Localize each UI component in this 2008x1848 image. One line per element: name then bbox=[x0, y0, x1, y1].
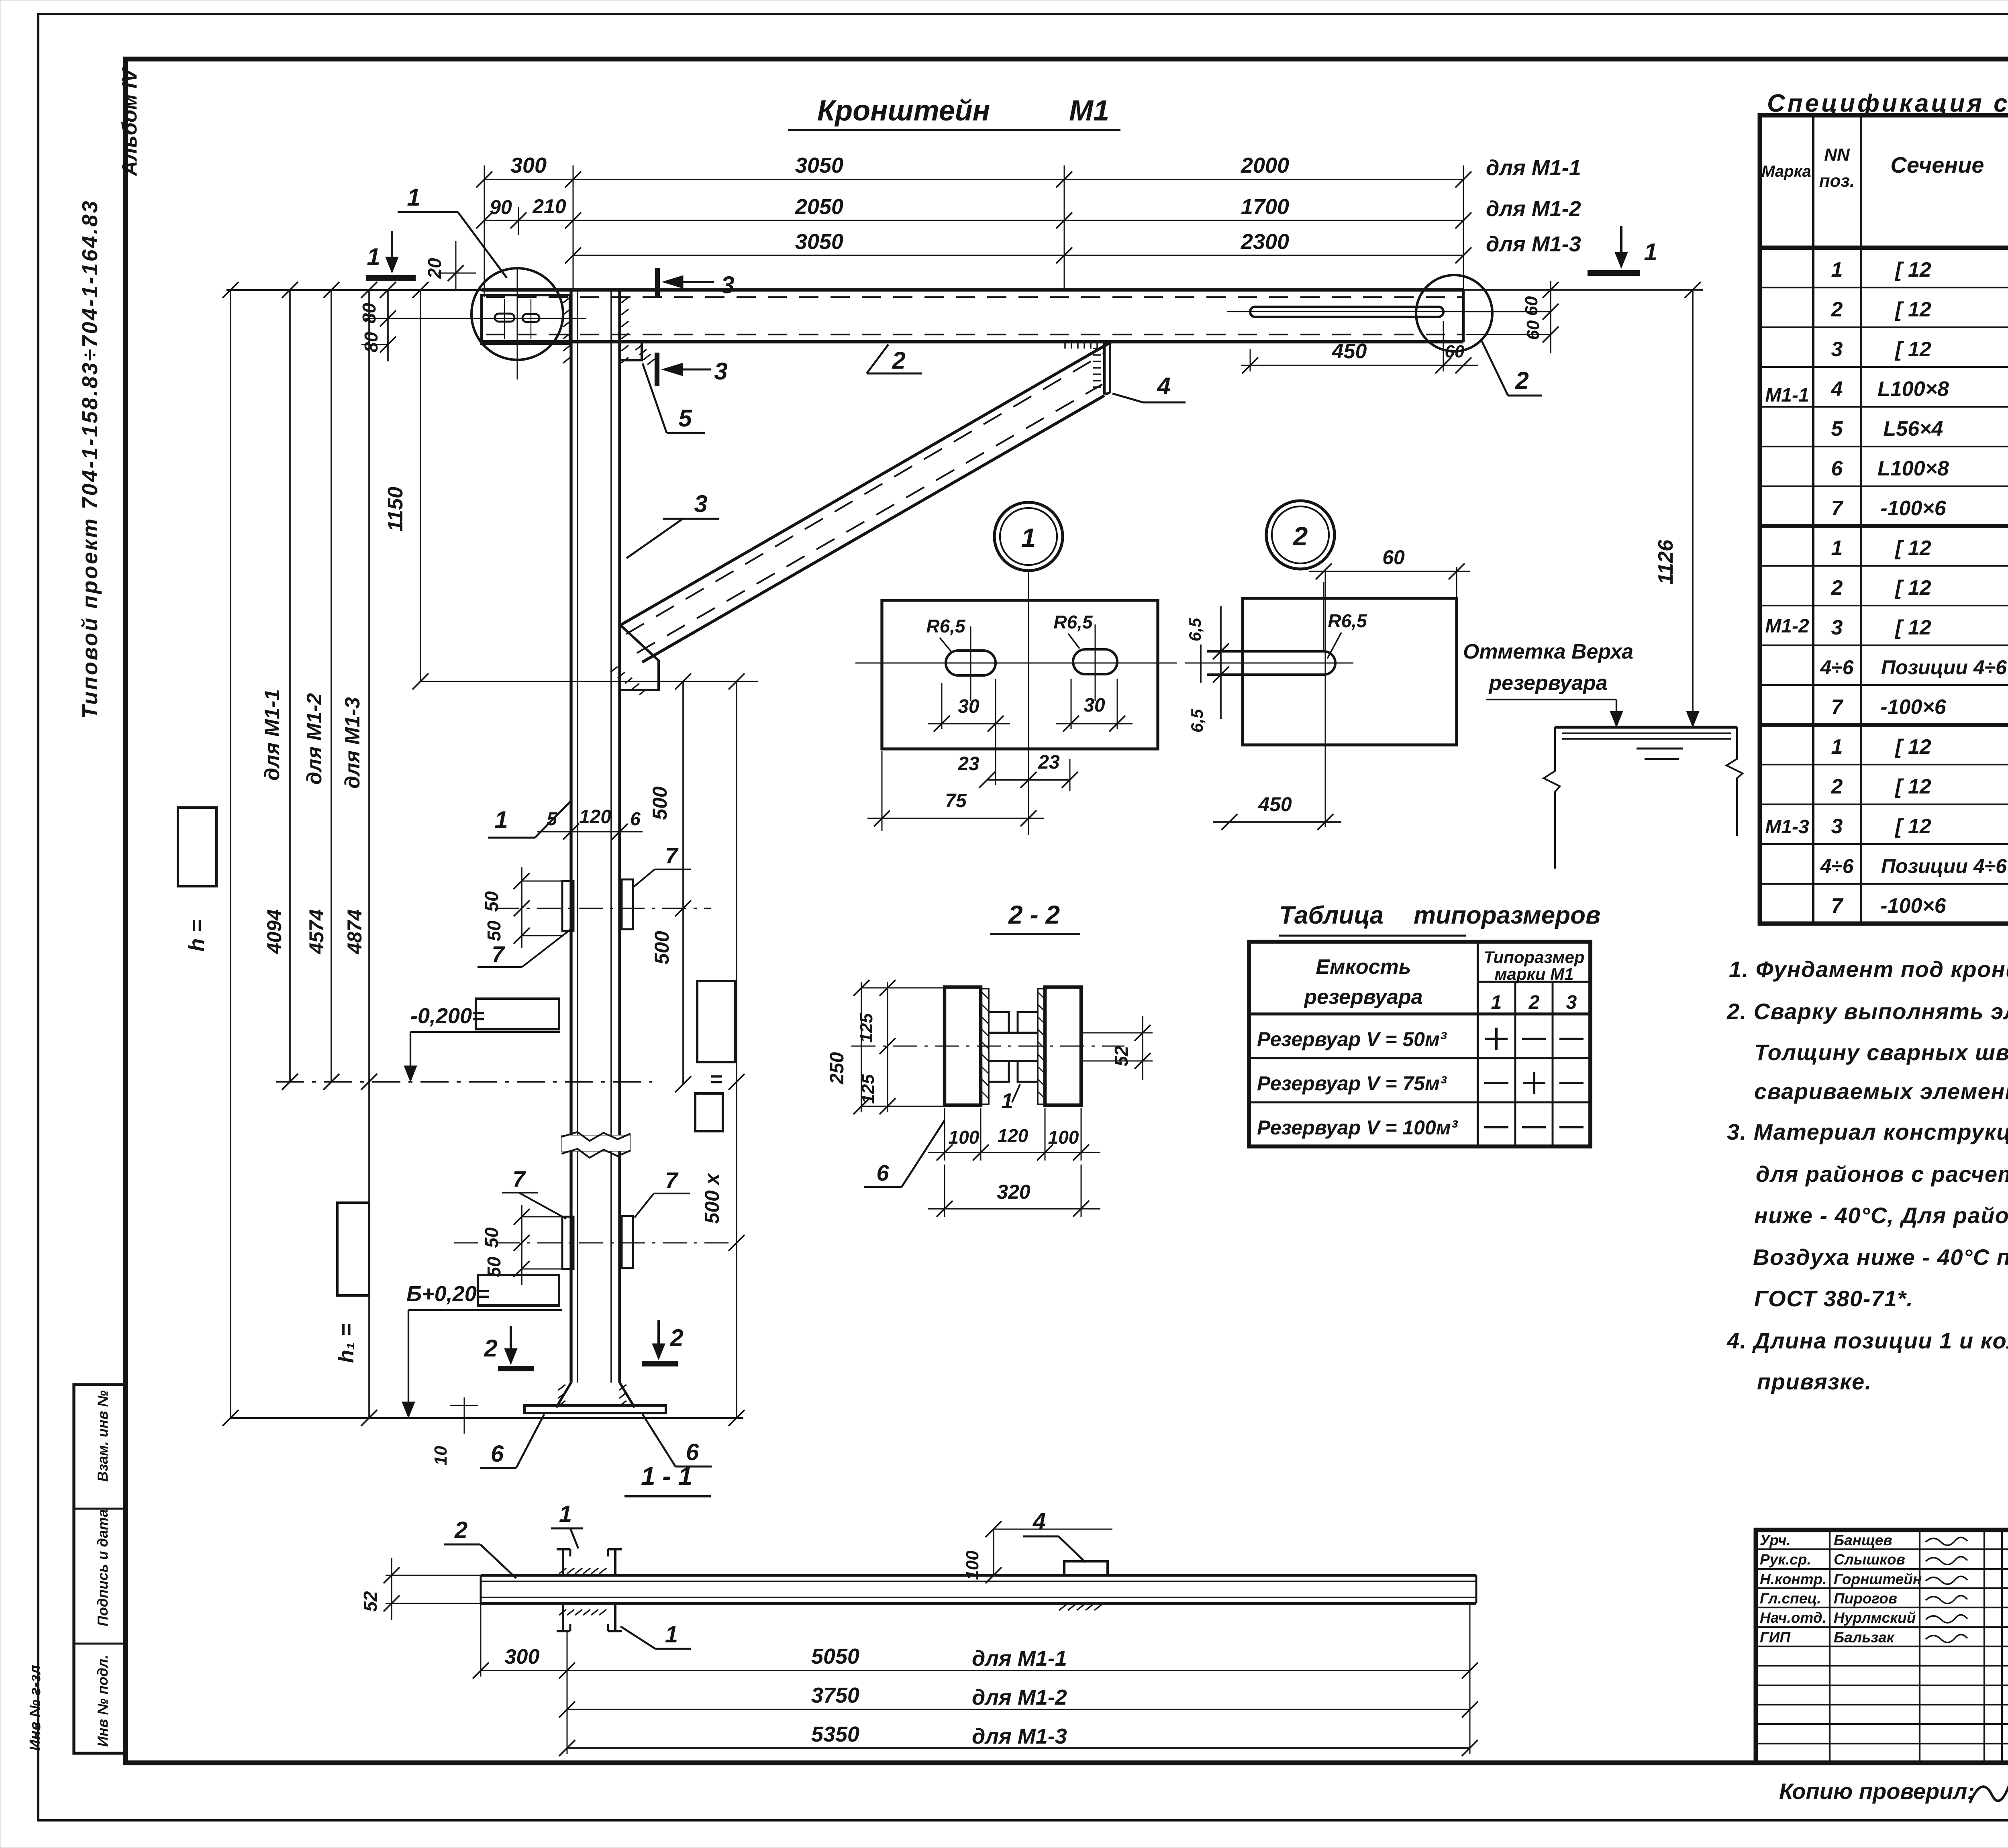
svg-text:4: 4 bbox=[1157, 373, 1170, 400]
svg-text:1: 1 bbox=[1491, 992, 1502, 1013]
dim 60/60 right bbox=[1550, 281, 1551, 353]
detail 1 callout circle bbox=[994, 502, 1063, 571]
section 1-1 upper channel stub pos.1 bbox=[562, 1549, 564, 1575]
dims 100/120/100 bbox=[944, 1108, 945, 1161]
svg-text:-100×6: -100×6 bbox=[1880, 696, 1946, 719]
svg-text:1: 1 bbox=[494, 806, 508, 833]
weld ticks post right edge bbox=[621, 297, 629, 303]
svg-text:[ 12: [ 12 bbox=[1894, 735, 1931, 759]
brace top stub plate pos.4 bbox=[1103, 340, 1106, 394]
section mark 3 upper (above beam) bbox=[655, 268, 660, 297]
svg-text:[ 12: [ 12 bbox=[1894, 338, 1931, 361]
svg-text:4: 4 bbox=[1831, 377, 1843, 401]
base plate pos.6 bbox=[524, 1405, 666, 1413]
svg-text:1: 1 bbox=[1644, 239, 1657, 265]
svg-text:4. Длина позиции 1 и количес: 4. Длина позиции 1 и количество позиций … bbox=[1726, 1328, 2008, 1353]
svg-text:2. Сварку выполнять электрод: 2. Сварку выполнять электродами типа Э-4… bbox=[1726, 999, 2008, 1024]
svg-text:Кронштейн: Кронштейн bbox=[817, 95, 990, 127]
svg-text:450: 450 bbox=[1258, 793, 1292, 816]
svg-text:-100×6: -100×6 bbox=[1880, 894, 1946, 918]
svg-text:1: 1 bbox=[407, 184, 420, 211]
svg-text:100: 100 bbox=[1048, 1127, 1079, 1148]
plate slot centerlines bbox=[504, 299, 505, 339]
svg-text:3: 3 bbox=[1831, 616, 1843, 639]
svg-text:6: 6 bbox=[630, 808, 641, 829]
svg-text:125: 125 bbox=[857, 1013, 876, 1043]
weld ticks post left edge bbox=[563, 297, 570, 303]
svg-text:марки М1: марки М1 bbox=[1494, 965, 1573, 983]
svg-text:320: 320 bbox=[997, 1181, 1031, 1203]
svg-text:2: 2 bbox=[454, 1517, 467, 1543]
svg-text:для М1-2: для М1-2 bbox=[303, 693, 326, 785]
svg-text:2050: 2050 bbox=[795, 195, 843, 219]
svg-text:50: 50 bbox=[484, 920, 504, 941]
svg-text:Н.контр.: Н.контр. bbox=[1760, 1571, 1826, 1587]
tablica frame bbox=[1249, 942, 1590, 1146]
detail 1 dims 23/23 bbox=[987, 779, 1070, 781]
svg-text:2: 2 bbox=[1528, 992, 1540, 1013]
dim 50/50 lower bbox=[521, 1205, 522, 1285]
dim 1150 bbox=[420, 290, 421, 681]
detail 2 dims 6,5 bbox=[1220, 606, 1222, 719]
beam right end bbox=[1462, 290, 1465, 342]
svg-text:5350: 5350 bbox=[811, 1722, 859, 1746]
top dimension rows bbox=[484, 179, 1463, 180]
svg-text:для М1-2: для М1-2 bbox=[1486, 197, 1581, 221]
svg-text:R6,5: R6,5 bbox=[1053, 612, 1093, 632]
svg-text:NN: NN bbox=[1824, 145, 1850, 165]
svg-text:Инв № подл.: Инв № подл. bbox=[94, 1655, 111, 1747]
svg-text:1 - 1: 1 - 1 bbox=[641, 1462, 692, 1491]
svg-text:1700: 1700 bbox=[1241, 195, 1289, 219]
svg-text:Взам. инв №: Взам. инв № bbox=[94, 1390, 111, 1482]
svg-text:450: 450 bbox=[1332, 340, 1367, 363]
svg-text:h =: h = bbox=[185, 920, 209, 952]
svg-text:1: 1 bbox=[1831, 258, 1843, 281]
detail 2 dim 60 top bbox=[1323, 582, 1324, 651]
dim 10 base bbox=[464, 1397, 465, 1434]
beam pos.2 bottom flange bbox=[482, 340, 1463, 344]
left dim lines for M1 variants bbox=[289, 290, 291, 1082]
svg-text:3: 3 bbox=[1566, 992, 1577, 1013]
svg-text:3: 3 bbox=[694, 490, 707, 517]
svg-text:Типоразмер: Типоразмер bbox=[1484, 948, 1585, 967]
stiffener pos.7 upper left bbox=[562, 881, 573, 931]
left attribute strip bbox=[74, 1385, 125, 1753]
left tall level box bbox=[337, 1203, 369, 1295]
detail 1 slot A bbox=[946, 651, 996, 675]
detail 1 dim 75 bbox=[882, 751, 883, 831]
svg-text:[ 12: [ 12 bbox=[1894, 536, 1931, 560]
svg-text:4574: 4574 bbox=[305, 909, 328, 954]
dim 52 right bbox=[1081, 1032, 1153, 1034]
svg-text:Урч.: Урч. bbox=[1760, 1532, 1791, 1548]
svg-text:1: 1 bbox=[1831, 735, 1843, 759]
plate slot B bbox=[522, 314, 539, 322]
svg-text:3050: 3050 bbox=[795, 230, 843, 254]
svg-text:для М1-3: для М1-3 bbox=[341, 697, 364, 789]
svg-text:для районов с расчетной те: для районов с расчетной температурой нар… bbox=[1756, 1161, 2008, 1187]
svg-text:Сечение: Сечение bbox=[1890, 152, 1984, 177]
svg-text:1. Фундамент под кронштейн: 1. Фундамент под кронштейн М1 разработан… bbox=[1729, 957, 2008, 982]
weld ticks pos4 plate left bbox=[1093, 348, 1101, 349]
svg-text:3. Материал конструкций - ст: 3. Материал конструкций - сталь марки В … bbox=[1727, 1119, 2008, 1144]
section 1-1 beam lines bbox=[481, 1574, 1476, 1577]
svg-text:[ 12: [ 12 bbox=[1894, 258, 1931, 281]
svg-text:6: 6 bbox=[876, 1160, 889, 1185]
dim 80/80 left bbox=[387, 290, 389, 361]
signature scribble bbox=[1926, 1576, 1967, 1584]
svg-text:3: 3 bbox=[1831, 338, 1843, 361]
svg-text:2: 2 bbox=[1292, 521, 1308, 551]
detail 1 dims 30 bbox=[941, 683, 943, 729]
section 2-2 weld seams bbox=[982, 989, 989, 1104]
svg-text:7: 7 bbox=[1831, 696, 1844, 719]
svg-text:L100×8: L100×8 bbox=[1877, 377, 1949, 401]
svg-text:6: 6 bbox=[1831, 457, 1843, 480]
foundation line bbox=[231, 1417, 743, 1419]
svg-text:1126: 1126 bbox=[1654, 539, 1677, 585]
svg-text:Резервуар V = 100м³: Резервуар V = 100м³ bbox=[1257, 1116, 1458, 1139]
brace lower gusset bbox=[620, 624, 659, 690]
foundation axis line -0.200 bbox=[276, 1081, 652, 1083]
wall end plate pos.1 bbox=[482, 295, 570, 344]
svg-text:ниже - 40°С, Для районов с: ниже - 40°С, Для районов с расчетной тем… bbox=[1754, 1203, 2008, 1228]
svg-text:Гл.спец.: Гл.спец. bbox=[1760, 1590, 1821, 1607]
dim 450/60 under slot bbox=[1250, 349, 1251, 371]
svg-text:М1-1: М1-1 bbox=[1765, 385, 1809, 406]
svg-text:h₁ =: h₁ = bbox=[334, 1324, 358, 1363]
svg-text:привязке.: привязке. bbox=[1757, 1369, 1872, 1394]
svg-text:1: 1 bbox=[559, 1501, 572, 1527]
post pos.1 (vertical channel) bbox=[569, 290, 572, 1383]
svg-text:для М1-1: для М1-1 bbox=[261, 689, 284, 781]
dim 1126 bbox=[1692, 290, 1694, 727]
proveril signature bbox=[1970, 1760, 2008, 1803]
svg-text:ГИП: ГИП bbox=[1760, 1629, 1791, 1646]
svg-text:52: 52 bbox=[1111, 1046, 1132, 1067]
level box -0,200 bbox=[476, 999, 559, 1029]
svg-text:Воздуха ниже - 40°С применя: Воздуха ниже - 40°С применять сталь марк… bbox=[1753, 1244, 2008, 1270]
detail 1 slot B bbox=[1073, 649, 1117, 674]
beam pos.2 top flange bbox=[227, 289, 482, 291]
svg-text:[ 12: [ 12 bbox=[1894, 616, 1931, 639]
weld ticks base left bbox=[558, 1385, 565, 1390]
svg-text:2: 2 bbox=[1831, 775, 1843, 798]
plate axis centerline bbox=[517, 268, 518, 379]
svg-text:[ 12: [ 12 bbox=[1894, 815, 1931, 838]
svg-text:Пирогов: Пирогов bbox=[1834, 1590, 1897, 1607]
svg-text:23: 23 bbox=[957, 753, 980, 775]
svg-text:[ 12: [ 12 bbox=[1894, 298, 1931, 321]
svg-text:поз.: поз. bbox=[1819, 171, 1855, 191]
dim 20 bbox=[438, 273, 476, 274]
svg-text:Нач.отд.: Нач.отд. bbox=[1760, 1609, 1826, 1626]
svg-text:6: 6 bbox=[491, 1441, 504, 1467]
weld ticks lower stub weld bbox=[559, 1609, 566, 1615]
svg-text:Слышков: Слышков bbox=[1834, 1551, 1905, 1568]
svg-text:6,5: 6,5 bbox=[1188, 709, 1206, 732]
svg-text:типоразмеров: типоразмеров bbox=[1414, 902, 1600, 929]
svg-text:4÷6: 4÷6 bbox=[1820, 855, 1854, 877]
svg-text:2 - 2: 2 - 2 bbox=[1008, 900, 1060, 929]
svg-text:для М1-3: для М1-3 bbox=[972, 1724, 1067, 1748]
svg-text:125: 125 bbox=[858, 1074, 878, 1104]
svg-text:3: 3 bbox=[714, 358, 727, 385]
signature scribble bbox=[1926, 1634, 1967, 1642]
svg-text:4: 4 bbox=[1033, 1508, 1046, 1534]
svg-text:2000: 2000 bbox=[1241, 153, 1289, 177]
svg-text:L100×8: L100×8 bbox=[1877, 457, 1949, 480]
svg-text:120: 120 bbox=[579, 806, 611, 828]
svg-text:1: 1 bbox=[367, 243, 380, 270]
section 2-2 centerline bbox=[851, 1046, 1124, 1047]
svg-text:Емкость: Емкость bbox=[1316, 955, 1411, 979]
section 2-2 right plate bbox=[1045, 987, 1081, 1105]
svg-text:100: 100 bbox=[949, 1127, 980, 1148]
svg-text:Нурлмский: Нурлмский bbox=[1834, 1609, 1916, 1626]
svg-text:Типовой проект 704-1-158.83÷7: Типовой проект 704-1-158.83÷704-1-164.83 bbox=[78, 199, 102, 719]
svg-text:для М1-1: для М1-1 bbox=[1486, 156, 1581, 180]
svg-text:-0,200=: -0,200= bbox=[410, 1004, 485, 1028]
svg-text:3: 3 bbox=[721, 271, 734, 298]
lower cluster axis bbox=[454, 1242, 735, 1244]
svg-text:6,5: 6,5 bbox=[1186, 618, 1204, 641]
svg-text:Инв № г-зл: Инв № г-зл bbox=[27, 1665, 44, 1751]
tank right wall bbox=[1726, 727, 1743, 836]
svg-text:2300: 2300 bbox=[1241, 230, 1289, 254]
svg-text:60: 60 bbox=[1523, 320, 1543, 340]
dim 52 bbox=[386, 1575, 481, 1576]
detail 2 open slot bbox=[1207, 651, 1335, 675]
svg-text:7: 7 bbox=[1831, 497, 1844, 520]
signature scribble bbox=[1926, 1615, 1967, 1623]
svg-text:Позиции 4÷6 по марке М1-1: Позиции 4÷6 по марке М1-1 bbox=[1881, 855, 2008, 877]
section divider M1-1/M1-2 bbox=[1760, 524, 2008, 528]
dim 50/50 upper bbox=[521, 867, 522, 948]
svg-text:120: 120 bbox=[998, 1125, 1028, 1146]
tank top bbox=[1555, 726, 1737, 728]
svg-text:R6,5: R6,5 bbox=[1328, 610, 1367, 631]
signature scribble bbox=[1926, 1595, 1967, 1603]
svg-text:Толщину сварных швов приним: Толщину сварных швов принимать по наимен… bbox=[1754, 1040, 2008, 1065]
post base flare bbox=[556, 1383, 571, 1407]
svg-text:50: 50 bbox=[481, 891, 502, 912]
header bottom line bbox=[1760, 246, 2008, 250]
section 2-2 left plate bbox=[945, 987, 981, 1105]
water mark 2 bbox=[1645, 758, 1679, 760]
svg-text:50: 50 bbox=[481, 1227, 502, 1248]
title underline bbox=[788, 129, 1120, 131]
svg-text:Позиции 4÷6 по марке М1-1: Позиции 4÷6 по марке М1-1 bbox=[1881, 656, 2008, 679]
svg-text:4÷6: 4÷6 bbox=[1820, 656, 1854, 679]
svg-text:2: 2 bbox=[1831, 576, 1843, 600]
svg-text:[ 12: [ 12 bbox=[1894, 576, 1931, 600]
weld ticks pos5 gusset bbox=[635, 345, 643, 350]
svg-text:250: 250 bbox=[826, 1052, 848, 1085]
detail 2 beam break lines bbox=[1200, 645, 1202, 683]
weld ticks under beam at brace top bbox=[1064, 343, 1066, 349]
stiffener pos.7 lower left bbox=[562, 1217, 573, 1269]
svg-text:30: 30 bbox=[1084, 695, 1105, 716]
svg-text:3: 3 bbox=[1831, 815, 1843, 838]
svg-text:Копию проверил:: Копию проверил: bbox=[1779, 1779, 1975, 1804]
section 1-1 plate pos.4 bbox=[1064, 1561, 1108, 1575]
beam slot (oval hole) bbox=[1250, 307, 1443, 317]
left dim line h= bbox=[230, 290, 231, 1418]
svg-text:Банщев: Банщев bbox=[1834, 1532, 1892, 1548]
svg-text:Марка: Марка bbox=[1761, 163, 1811, 180]
svg-text:Таблица: Таблица bbox=[1279, 902, 1384, 929]
diagonal brace pos.3 bbox=[621, 342, 1112, 625]
svg-text:23: 23 bbox=[1038, 752, 1060, 773]
detail 2 plate bbox=[1243, 598, 1457, 745]
svg-text:Б+0,20=: Б+0,20= bbox=[406, 1282, 489, 1306]
weld ticks base right bbox=[619, 1385, 626, 1390]
svg-text:ГОСТ 380-71*.: ГОСТ 380-71*. bbox=[1754, 1286, 1914, 1311]
post top gusset pos.5 bbox=[620, 342, 642, 360]
svg-text:2: 2 bbox=[484, 1335, 497, 1362]
svg-text:2: 2 bbox=[1831, 298, 1843, 321]
svg-text:М1-2: М1-2 bbox=[1765, 616, 1809, 637]
bottom dimension rows bbox=[480, 1603, 482, 1677]
water mark 1 bbox=[1637, 748, 1683, 750]
svg-text:1150: 1150 bbox=[384, 487, 407, 532]
svg-text:5050: 5050 bbox=[811, 1644, 859, 1669]
svg-text:500: 500 bbox=[649, 786, 671, 820]
level box B+0,20 bbox=[478, 1275, 559, 1305]
svg-text:Горнштейн: Горнштейн bbox=[1834, 1571, 1922, 1587]
title block (stamp) bbox=[1756, 1530, 2008, 1763]
svg-text:60: 60 bbox=[1382, 546, 1405, 569]
svg-text:80: 80 bbox=[361, 332, 382, 353]
svg-text:2: 2 bbox=[892, 347, 905, 374]
weld ticks brace lower gusset bbox=[610, 667, 618, 672]
signature scribble bbox=[1926, 1537, 1967, 1545]
svg-text:3050: 3050 bbox=[795, 153, 843, 177]
svg-text:500 x: 500 x bbox=[701, 1173, 723, 1224]
svg-text:Рук.ср.: Рук.ср. bbox=[1760, 1551, 1811, 1568]
dim 250/125 bbox=[861, 982, 862, 1112]
detail 1 centerlines bbox=[855, 663, 1177, 664]
svg-text:М1: М1 bbox=[1069, 95, 1109, 127]
svg-text:90: 90 bbox=[490, 196, 512, 218]
svg-text:=: = bbox=[710, 1068, 722, 1091]
dim 500 (right of post, upper) bbox=[682, 681, 684, 1084]
dim 320 bbox=[944, 1165, 945, 1217]
svg-text:1: 1 bbox=[1021, 523, 1036, 553]
svg-text:210: 210 bbox=[532, 195, 566, 218]
detail circle mark 1 bbox=[471, 268, 563, 360]
svg-text:300: 300 bbox=[505, 1645, 540, 1669]
detail 2 callout circle bbox=[1266, 501, 1335, 569]
svg-text:для М1-1: для М1-1 bbox=[972, 1646, 1067, 1671]
svg-text:7: 7 bbox=[665, 843, 679, 868]
upper cluster axis bbox=[495, 908, 711, 909]
svg-text:4094: 4094 bbox=[263, 909, 286, 954]
svg-text:2: 2 bbox=[1515, 367, 1528, 394]
svg-text:2: 2 bbox=[669, 1324, 683, 1351]
svg-text:7: 7 bbox=[1831, 894, 1844, 918]
svg-text:7: 7 bbox=[665, 1167, 679, 1193]
gusset level line bbox=[420, 681, 758, 682]
stiffener pos.7 lower right bbox=[622, 1216, 633, 1268]
svg-text:75: 75 bbox=[945, 790, 967, 812]
svg-text:Резервуар V = 75м³: Резервуар V = 75м³ bbox=[1257, 1072, 1447, 1095]
svg-text:для М1-3: для М1-3 bbox=[1486, 232, 1581, 256]
svg-text:-100×6: -100×6 bbox=[1880, 497, 1946, 520]
svg-text:R6,5: R6,5 bbox=[926, 616, 966, 636]
specification table frame bbox=[1760, 115, 2008, 924]
dim 5/120/6 post width bbox=[537, 831, 643, 832]
svg-text:52: 52 bbox=[360, 1591, 381, 1612]
svg-text:Альбом IV: Альбом IV bbox=[118, 67, 141, 177]
section 2-2 channel flange stubs bbox=[989, 1012, 1009, 1033]
dim 100 pos4 bbox=[993, 1529, 994, 1575]
section divider M1-2/M1-3 bbox=[1760, 723, 2008, 727]
svg-text:резервуара: резервуара bbox=[1303, 985, 1422, 1009]
weld ticks upper stub weld bbox=[559, 1568, 566, 1574]
section 1-1 lower channel stub pos.1 bbox=[562, 1603, 564, 1631]
svg-text:[ 12: [ 12 bbox=[1894, 775, 1931, 798]
svg-text:1: 1 bbox=[1831, 536, 1843, 560]
dim 500x (right of post, lower) bbox=[736, 681, 737, 1418]
svg-text:7: 7 bbox=[492, 941, 505, 967]
svg-text:свариваемых элементов.: свариваемых элементов. bbox=[1754, 1079, 2008, 1104]
detail circle mark 2 on beam bbox=[1416, 275, 1492, 351]
svg-text:3750: 3750 bbox=[811, 1683, 859, 1707]
stiffener pos.7 upper right bbox=[622, 879, 633, 929]
section mark 3 lower (below beam) bbox=[655, 353, 659, 386]
post axis extension bbox=[1064, 165, 1065, 290]
svg-text:Бальзак: Бальзак bbox=[1834, 1629, 1895, 1646]
svg-text:30: 30 bbox=[958, 696, 980, 717]
svg-text:5: 5 bbox=[1831, 417, 1843, 441]
tank left wall bbox=[1544, 727, 1560, 869]
svg-text:7: 7 bbox=[512, 1166, 526, 1191]
svg-text:резервуара: резервуара bbox=[1488, 671, 1607, 695]
svg-text:Подпись и дата: Подпись и дата bbox=[94, 1509, 111, 1626]
detail 2 vertical ext bbox=[1325, 569, 1326, 827]
svg-text:60: 60 bbox=[1522, 296, 1541, 316]
right level boxes bbox=[697, 981, 735, 1062]
svg-text:для М1-2: для М1-2 bbox=[972, 1685, 1067, 1709]
post break symbol bbox=[561, 1135, 631, 1151]
svg-text:4874: 4874 bbox=[343, 909, 366, 954]
svg-text:Отметка Верха: Отметка Верха bbox=[1463, 640, 1633, 663]
svg-text:1: 1 bbox=[665, 1622, 678, 1648]
detail 2 dim 450 bbox=[1213, 821, 1341, 823]
weld ticks pos4 weld bbox=[1059, 1605, 1066, 1610]
svg-text:100: 100 bbox=[963, 1550, 982, 1580]
svg-text:L56×4: L56×4 bbox=[1884, 417, 1943, 441]
svg-text:Резервуар V = 50м³: Резервуар V = 50м³ bbox=[1257, 1028, 1447, 1050]
svg-text:5: 5 bbox=[547, 808, 557, 829]
svg-text:10: 10 bbox=[431, 1446, 451, 1465]
signature scribble bbox=[1926, 1556, 1967, 1564]
svg-text:300: 300 bbox=[510, 153, 547, 177]
section 2-2 channel web bbox=[989, 1032, 1038, 1034]
flag box h= bbox=[178, 808, 216, 886]
otmetka leader bbox=[1486, 699, 1616, 700]
svg-text:1: 1 bbox=[1001, 1089, 1013, 1113]
detail 1 plate bbox=[882, 600, 1158, 749]
svg-text:500: 500 bbox=[651, 931, 673, 965]
svg-text:5: 5 bbox=[678, 405, 692, 432]
svg-text:20: 20 bbox=[424, 258, 445, 279]
plate slot A bbox=[495, 314, 514, 322]
beam dashed flange lines bbox=[486, 296, 1463, 298]
